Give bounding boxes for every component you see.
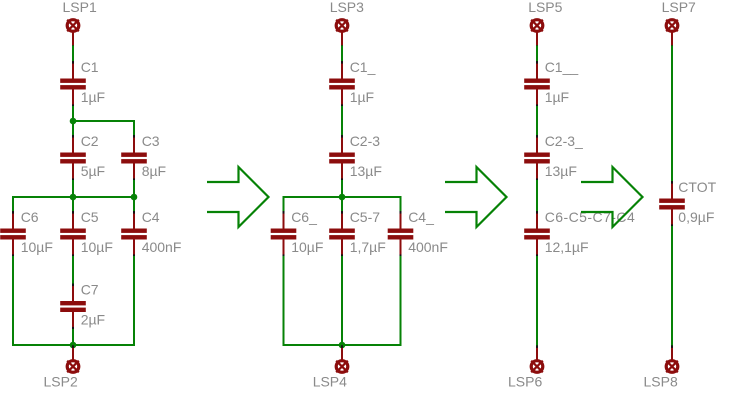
svg-text:LSP4: LSP4 <box>313 374 347 390</box>
svg-text:LSP2: LSP2 <box>44 374 78 390</box>
wire C5 to C7 <box>72 256 74 285</box>
junction node A <box>70 118 77 125</box>
wire node B rail <box>13 197 134 212</box>
capacitor C1 <box>60 61 86 107</box>
wire C1 to node A <box>72 106 74 136</box>
junction node C <box>70 342 77 349</box>
capacitor C2-3_ <box>524 135 550 181</box>
svg-text:400nF: 400nF <box>408 239 448 255</box>
capacitor C2 <box>60 135 86 181</box>
arrow 1 <box>207 167 269 227</box>
capacitor C6_ <box>271 211 297 257</box>
solder pad LSP3 <box>336 20 348 48</box>
svg-text:CTOT: CTOT <box>678 179 716 195</box>
svg-text:C1__: C1__ <box>545 59 579 75</box>
wire node C to LSP2 <box>72 345 74 348</box>
solder pad LSP2 <box>67 345 79 372</box>
wire C2-3 to node D <box>341 180 343 197</box>
wire LSP7 to CTOT <box>671 46 673 183</box>
wire C1__ to C2-3_ <box>536 106 538 136</box>
svg-text:2µF: 2µF <box>81 312 105 328</box>
capacitor C2-3 <box>329 135 355 181</box>
arrow 3 <box>581 167 643 227</box>
wire node B to C5 <box>72 197 74 212</box>
wire C2 to node B <box>72 180 74 197</box>
solder pad LSP5 <box>531 20 543 48</box>
svg-text:400nF: 400nF <box>142 239 182 255</box>
svg-text:1,7µF: 1,7µF <box>350 239 386 255</box>
capacitor C1__ <box>524 61 550 107</box>
svg-text:1µF: 1µF <box>350 89 374 105</box>
svg-text:C7: C7 <box>81 282 99 298</box>
capacitor C6 <box>0 211 26 257</box>
svg-text:C1_: C1_ <box>350 59 376 75</box>
wire LSP3 to C1_ <box>341 46 343 63</box>
svg-text:C5-7: C5-7 <box>350 209 381 225</box>
svg-text:10µF: 10µF <box>81 239 113 255</box>
wire C7 to node C <box>72 329 74 345</box>
svg-text:10µF: 10µF <box>21 239 53 255</box>
solder pad LSP7 <box>666 20 678 48</box>
svg-text:1µF: 1µF <box>545 89 569 105</box>
junction node B <box>70 194 77 201</box>
svg-text:1µF: 1µF <box>81 89 105 105</box>
wire node D to C5-7 <box>341 197 343 212</box>
wire CTOT to LSP8 <box>671 226 673 347</box>
capacitor CTOT <box>659 181 685 227</box>
capacitor C6-C5-C7-C4 <box>524 211 550 257</box>
svg-text:LSP6: LSP6 <box>508 374 542 390</box>
capacitor C4 <box>121 211 147 257</box>
svg-text:LSP1: LSP1 <box>63 0 97 15</box>
svg-text:8µF: 8µF <box>142 163 166 179</box>
wire LSP1 to C1 <box>72 46 74 63</box>
wire LSP5 to C1__ <box>536 46 538 63</box>
wire C1_ to C2-3 <box>341 106 343 136</box>
capacitor C5-7 <box>329 211 355 257</box>
capacitor C4_ <box>388 211 414 257</box>
svg-text:10µF: 10µF <box>291 239 323 255</box>
svg-text:C2-3: C2-3 <box>350 133 381 149</box>
junction node D <box>339 194 346 201</box>
svg-text:C6: C6 <box>21 209 39 225</box>
svg-text:0,9µF: 0,9µF <box>678 209 714 225</box>
svg-text:12,1µF: 12,1µF <box>545 239 589 255</box>
svg-text:C4_: C4_ <box>408 209 434 225</box>
svg-text:C2: C2 <box>81 133 99 149</box>
junction node E <box>339 342 346 349</box>
svg-text:C2-3_: C2-3_ <box>545 133 583 149</box>
wire node E rail <box>284 256 401 345</box>
svg-text:LSP7: LSP7 <box>662 0 696 15</box>
wire node D rail <box>284 197 401 212</box>
wire node A to C3 <box>73 121 134 136</box>
svg-text:C1: C1 <box>81 59 99 75</box>
arrow 2 <box>445 167 507 227</box>
capacitor C7 <box>60 284 86 330</box>
solder pad LSP1 <box>67 20 79 48</box>
svg-text:13µF: 13µF <box>350 163 382 179</box>
junction node B right <box>131 194 138 201</box>
svg-text:C6_: C6_ <box>291 209 317 225</box>
capacitor C1_ <box>329 61 355 107</box>
solder pad LSP6 <box>531 345 543 372</box>
wire C6-C5-C7-C4 to LSP6 <box>536 256 538 347</box>
solder pad LSP4 <box>336 345 348 372</box>
svg-text:C3: C3 <box>142 133 160 149</box>
wire C5-7 to LSP4 <box>341 256 343 348</box>
wire node C rail <box>13 256 134 345</box>
svg-text:LSP8: LSP8 <box>644 374 678 390</box>
solder pad LSP8 <box>666 345 678 372</box>
svg-text:LSP5: LSP5 <box>528 0 562 15</box>
capacitor C5 <box>60 211 86 257</box>
svg-text:5µF: 5µF <box>81 163 105 179</box>
svg-text:LSP3: LSP3 <box>330 0 364 15</box>
svg-text:C4: C4 <box>142 209 160 225</box>
capacitor C3 <box>121 135 147 181</box>
wire C3 to node B <box>133 180 135 197</box>
svg-text:13µF: 13µF <box>545 163 577 179</box>
svg-text:C5: C5 <box>81 209 99 225</box>
wire C2-3_ to C6-C5-C7-C4 <box>536 180 538 212</box>
